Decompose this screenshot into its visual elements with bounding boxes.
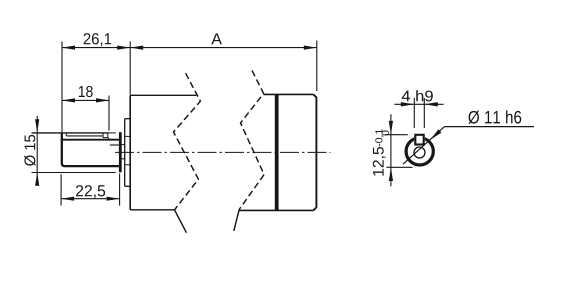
- shaft behind boss top: [125, 135, 129, 137]
- shaft top edge: [62, 139, 119, 141]
- dimension line 18: [62, 99, 109, 101]
- extension line 12,5 bottom: [387, 166, 413, 168]
- gearbox body left edge: [129, 95, 131, 210]
- motor magnet line (thick): [275, 94, 279, 210]
- key lower edge: [66, 135, 103, 137]
- extension line dia15 bottom: [32, 172, 116, 174]
- motor body top edge: [263, 93, 313, 95]
- key end box right: [102, 133, 104, 138]
- leader arrowhead: [430, 129, 441, 139]
- extension line keyway right: [423, 98, 425, 128]
- keyway notch blank: [414, 134, 425, 146]
- dimension line 4 h9: [394, 103, 443, 105]
- dimension line dia 15 (vertical): [36, 116, 38, 186]
- shaft end circle dia11: [406, 138, 433, 165]
- keyway slot floor behind key: [110, 144, 119, 146]
- extension line left (shaft end, x=62): [61, 42, 63, 133]
- dimension text 26,1: [84, 33, 112, 46]
- extension line 22,5 right: [119, 174, 121, 206]
- motor body bottom edge: [239, 209, 313, 211]
- gearbox body top edge: [130, 94, 196, 96]
- collar dia15 front face: [119, 132, 122, 172]
- dimension text 12,5 (rotated): [373, 147, 386, 176]
- shaft outline (left edge + bottom): [62, 133, 119, 166]
- tolerance text 0 (rotated): [382, 131, 389, 136]
- tolerance text -0,1 (rotated): [375, 129, 383, 146]
- dimension text 22,5: [76, 185, 105, 198]
- extension line body right (x=316.8): [316, 41, 318, 92]
- dimension text dia 15 (rotated): [24, 135, 36, 166]
- dimension line A: [130, 47, 317, 49]
- keyway square: [415, 135, 423, 145]
- break line left (dashed zigzag): [174, 73, 201, 210]
- dimension text 18: [79, 86, 93, 97]
- break line right (dashed zigzag): [239, 71, 264, 210]
- dimension text A: [211, 33, 222, 44]
- key end tick left: [65, 133, 67, 136]
- leader horizontal shelf: [445, 126, 535, 128]
- center bore circle: [414, 147, 425, 158]
- gearbox body bottom edge: [130, 209, 174, 211]
- dimension text 4 h9: [402, 90, 433, 101]
- extension line dia15 top / key top: [32, 132, 109, 134]
- extension line keyway left: [413, 98, 415, 128]
- dimension line 22,5: [61, 198, 120, 200]
- extension line 22,5 left: [60, 174, 62, 205]
- leader line dia 11 h6 (diagonal through circle): [403, 127, 445, 165]
- boss top edge: [125, 118, 130, 120]
- extension line keyway end (x=109): [108, 96, 110, 131]
- centerline left view (dash-dot): [115, 151, 330, 153]
- boss bottom edge: [125, 185, 130, 187]
- extension line gearbox face (x=130.2): [129, 42, 131, 95]
- dimension text dia 11 h6: [468, 110, 521, 124]
- dimension line 12,5 (vertical): [390, 114, 392, 186]
- bearing step bottom line: [121, 158, 125, 160]
- boss front face: [124, 119, 126, 187]
- bearing step top line: [121, 144, 125, 146]
- extension line 12,5 top: [385, 134, 408, 136]
- motor end cap right edge (chamfered): [313, 94, 316, 210]
- shaft behind boss bottom: [125, 164, 129, 166]
- dimension line 26,1: [62, 47, 130, 49]
